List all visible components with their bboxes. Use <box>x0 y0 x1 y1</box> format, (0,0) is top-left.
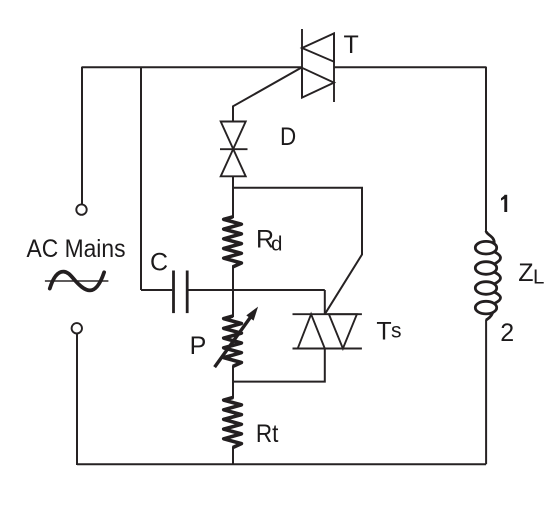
wire bottom horizontal <box>77 463 486 465</box>
triac T right bar <box>333 33 335 103</box>
label 1 <box>501 195 507 212</box>
wire triac gate diagonal <box>233 67 302 121</box>
svg-text:L: L <box>533 266 544 289</box>
wire D bottom lead <box>232 176 234 219</box>
wire inner left vertical (to capacitor) <box>140 67 142 290</box>
terminal top circle <box>76 204 86 214</box>
potentiometer P arrow head <box>246 307 258 321</box>
svg-text:D: D <box>280 123 296 151</box>
wire Ts bottom return <box>233 349 325 382</box>
wire capacitor right lead to Ts <box>189 289 325 291</box>
wire top-right horizontal <box>334 66 486 68</box>
potentiometer P arrow shaft <box>215 317 251 368</box>
svg-text:d: d <box>271 232 282 255</box>
wire Rt bottom lead <box>232 447 234 465</box>
terminal bottom circle <box>72 323 82 333</box>
wire top-left horizontal <box>82 66 302 68</box>
wire right rail lower <box>485 320 487 465</box>
svg-text:C: C <box>150 248 168 276</box>
svg-text:2: 2 <box>500 319 514 347</box>
diac D lower triangle <box>221 149 246 176</box>
svg-text:Z: Z <box>518 259 533 287</box>
potentiometer P zigzag <box>224 316 242 366</box>
diac D middle bar <box>220 148 248 150</box>
svg-text:s: s <box>391 320 402 343</box>
triac Ts top bar <box>293 313 362 315</box>
svg-text:AC Mains: AC Mains <box>27 235 126 263</box>
wire vertical into Ts top <box>324 290 326 314</box>
wire left outer vertical to top terminal <box>81 67 83 205</box>
wire Rd bottom to P top <box>232 266 234 318</box>
resistor Rd zigzag <box>224 217 242 267</box>
resistor Rt zigzag <box>224 398 242 448</box>
diac D upper triangle <box>221 122 246 150</box>
triac Ts left triangle <box>298 314 325 348</box>
svg-text:Rt: Rt <box>256 420 279 448</box>
wire right rail upper <box>485 67 487 231</box>
wire capacitor left lead <box>141 289 172 291</box>
triac T left bar <box>301 29 303 98</box>
triac T lower triangle <box>302 68 334 98</box>
AC source sine wave <box>50 272 104 291</box>
svg-text:T: T <box>376 317 391 345</box>
capacitor C left plate <box>172 271 175 314</box>
wire left bottom vertical <box>76 334 78 465</box>
inductor ZL coil <box>475 231 500 320</box>
svg-text:T: T <box>344 31 359 59</box>
triac T upper triangle <box>302 33 334 61</box>
AC source sine line <box>45 280 109 282</box>
triac Ts bottom bar <box>293 348 362 350</box>
wire P bottom to Rt top <box>232 366 234 399</box>
wire D junction to Ts gate horizontal <box>233 188 362 314</box>
svg-text:P: P <box>190 332 207 360</box>
capacitor C right plate <box>186 271 189 314</box>
triac Ts right triangle <box>329 314 357 348</box>
